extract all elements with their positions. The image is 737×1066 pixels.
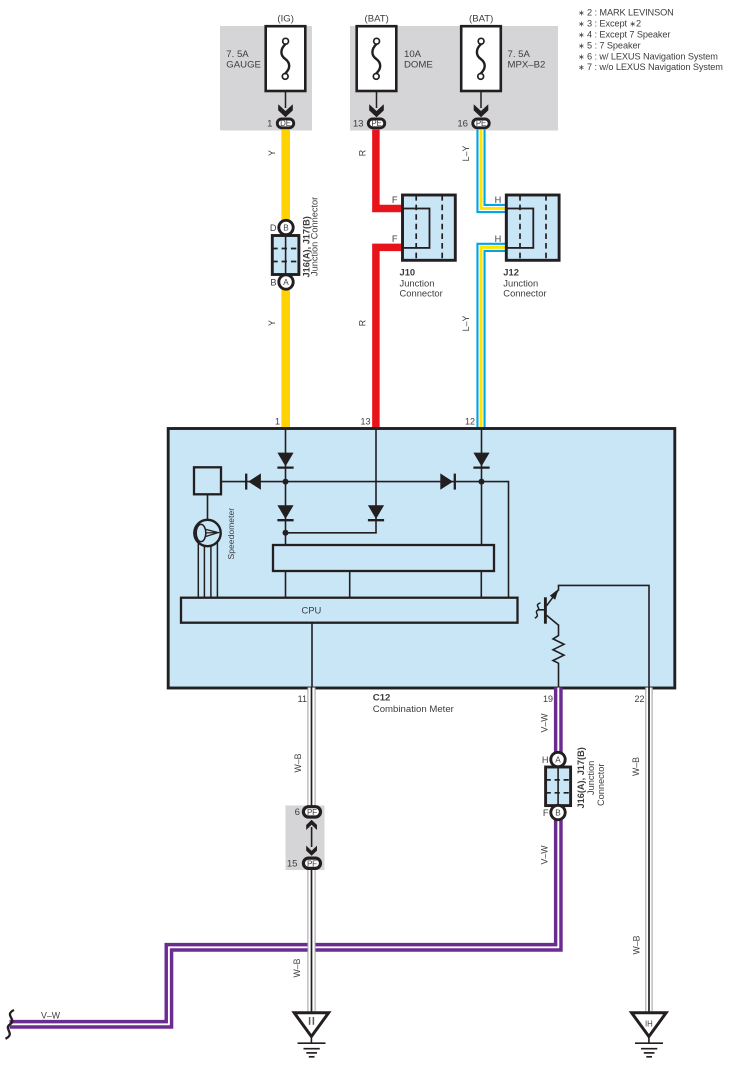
- svg-text:12: 12: [465, 417, 475, 427]
- diode D3 (second row under pin 13): [368, 505, 384, 520]
- svg-text:V–W: V–W: [41, 1011, 61, 1021]
- diode D2 (second row under pin 1): [277, 505, 293, 520]
- wire V-W (violet) pin 19 to junction connector: [554, 688, 563, 754]
- collector wire to pin 22: [559, 585, 650, 687]
- input block square: [194, 467, 221, 494]
- wire V-W (violet) junction connector to left edge: [10, 819, 559, 1025]
- connector pair arrows: [306, 820, 317, 856]
- svg-text:H: H: [495, 234, 502, 244]
- pin 11 label: [298, 694, 307, 704]
- pin 13 label: [360, 417, 370, 427]
- junction connector J16(A),J17(B) upper on yellow wire: [270, 197, 320, 289]
- speedometer to CPU wires: [198, 542, 217, 598]
- svg-text:PE: PE: [371, 119, 381, 128]
- pin 19 label: [543, 694, 553, 704]
- svg-text:H: H: [542, 755, 549, 765]
- svg-text:15: 15: [287, 859, 298, 870]
- CPU to pin 11 wire: [311, 623, 313, 688]
- node column from pin 13: [285, 429, 377, 533]
- wire W-B pin 11 lower segment to ground: [308, 867, 315, 1013]
- internal bus wire: [221, 481, 509, 598]
- svg-text:A: A: [283, 278, 289, 287]
- wire R (red) J10 to combination meter pin 13: [376, 247, 403, 428]
- svg-text:V–W: V–W: [540, 845, 550, 865]
- svg-text:R: R: [358, 150, 368, 156]
- wire label W-B (pin 22 lower): [632, 935, 642, 954]
- junction node dot C: [283, 530, 289, 536]
- svg-text:∗ 2 : MARK LEVINSON: ∗ 2 : MARK LEVINSON: [578, 8, 674, 18]
- svg-text:MPX–B2: MPX–B2: [508, 60, 546, 71]
- fuse F1 output arrow to connector DE pin 1: [267, 91, 294, 130]
- ground IH: [632, 1013, 667, 1057]
- junction node dot A: [283, 479, 289, 485]
- svg-text:∗ 5 : 7 Speaker: ∗ 5 : 7 Speaker: [578, 40, 640, 50]
- node column from pin 12: [481, 429, 483, 546]
- wire label L-Y lower: [461, 316, 471, 332]
- junction connector J10: [392, 195, 455, 299]
- connector 6 PF: [295, 807, 321, 819]
- wire label V-W lower: [540, 845, 550, 865]
- svg-text:22: 22: [634, 694, 644, 704]
- connector 15 PF: [287, 858, 321, 870]
- continuation squiggle on V-W wire: [6, 1010, 15, 1039]
- wire label Y upper: [267, 150, 277, 156]
- wire label W-B (pin 11 lower): [292, 958, 302, 977]
- svg-text:W–B: W–B: [632, 935, 642, 954]
- svg-text:13: 13: [353, 119, 364, 130]
- connector pair gray block (6 PF / 15 PF): [286, 805, 325, 870]
- fuse F1 7.5A GAUGE: [226, 13, 305, 91]
- svg-text:C12: C12: [373, 693, 391, 704]
- wire label L-Y upper: [461, 146, 471, 162]
- wire R (red) fuse 13 to J10: [376, 130, 403, 209]
- svg-text:Connector: Connector: [400, 288, 443, 299]
- svg-text:H: H: [495, 195, 502, 205]
- fuse F2 output arrow to connector PE pin 13: [353, 91, 385, 130]
- diode D6 (bus, pointing right): [440, 473, 455, 489]
- wire label V-W horizontal: [41, 1011, 61, 1021]
- junction connector J12: [495, 195, 559, 299]
- fuse F2 10A DOME: [357, 13, 433, 91]
- svg-text:(BAT): (BAT): [469, 13, 493, 24]
- svg-text:PE: PE: [476, 119, 486, 128]
- svg-text:(IG): (IG): [277, 13, 294, 24]
- svg-text:PF: PF: [307, 808, 317, 817]
- C12 label: [373, 693, 455, 715]
- svg-text:10A: 10A: [404, 49, 422, 60]
- svg-text:13: 13: [360, 417, 370, 427]
- combination meter C12 box: [168, 429, 675, 689]
- svg-text:Junction Connector: Junction Connector: [310, 197, 320, 276]
- svg-text:Speedometer: Speedometer: [226, 508, 236, 560]
- wire label R lower: [358, 320, 368, 326]
- wire L-Y (blue/yellow) J12 to combination meter pin 12: [481, 247, 506, 428]
- svg-text:Y: Y: [267, 150, 277, 156]
- wire Y (yellow) fuse 1 to combination meter pin 1: [281, 130, 290, 430]
- wire label R upper: [358, 150, 368, 156]
- power feed gray block (BAT fuses): [350, 26, 558, 131]
- svg-text:(BAT): (BAT): [365, 13, 389, 24]
- wire label W-B (pin 11 upper): [293, 753, 303, 772]
- svg-text:19: 19: [543, 694, 553, 704]
- wire label V-W upper: [540, 713, 550, 733]
- diode D1 (under pin 1): [277, 453, 293, 468]
- wire W-B pin 22 to ground: [646, 688, 652, 1014]
- svg-text:A: A: [555, 756, 561, 765]
- node column from pin 1: [285, 429, 287, 546]
- svg-text:F: F: [543, 808, 549, 818]
- register to CPU wires: [286, 571, 482, 598]
- svg-text:DE: DE: [280, 119, 291, 128]
- power feed gray block (IG fuse): [220, 26, 312, 131]
- legend notes: [578, 8, 723, 73]
- svg-text:∗ 3 : Except ∗2: ∗ 3 : Except ∗2: [578, 19, 641, 29]
- svg-text:W–B: W–B: [293, 753, 303, 772]
- pin 22 label: [634, 694, 644, 704]
- ground II: [294, 1013, 328, 1057]
- svg-text:GAUGE: GAUGE: [226, 60, 261, 71]
- diode D5 (bus, pointing left to square): [246, 473, 261, 489]
- svg-text:J10: J10: [400, 267, 416, 278]
- svg-text:∗ 4 : Except 7 Speaker: ∗ 4 : Except 7 Speaker: [578, 30, 670, 40]
- svg-text:L–Y: L–Y: [461, 146, 471, 162]
- svg-text:Combination Meter: Combination Meter: [373, 704, 455, 715]
- pin 12 label: [465, 417, 475, 427]
- svg-text:F: F: [392, 195, 398, 205]
- fuse F3 output arrow to connector PE pin 16: [457, 91, 489, 130]
- svg-text:B: B: [555, 809, 561, 818]
- resistor R1: [553, 625, 564, 688]
- svg-text:Connector: Connector: [596, 764, 606, 806]
- svg-text:11: 11: [298, 694, 307, 704]
- svg-text:∗ 6 : w/ LEXUS Navigation Syst: ∗ 6 : w/ LEXUS Navigation System: [578, 51, 718, 61]
- svg-text:J16(A), J17(B): J16(A), J17(B): [576, 747, 586, 808]
- svg-text:L–Y: L–Y: [461, 316, 471, 332]
- svg-text:Connector: Connector: [503, 288, 546, 299]
- svg-text:6: 6: [295, 807, 300, 818]
- CPU block: [181, 598, 518, 623]
- junction connector J16(A),J17(B) lower on violet wire: [542, 747, 606, 819]
- transistor Q1: [535, 589, 559, 626]
- diode D4 (under pin 12): [473, 453, 489, 468]
- svg-text:16: 16: [457, 119, 468, 130]
- speedometer gauge: [194, 494, 236, 559]
- svg-text:DOME: DOME: [404, 60, 433, 71]
- svg-text:7. 5A: 7. 5A: [508, 49, 531, 60]
- svg-text:W–B: W–B: [292, 958, 302, 977]
- svg-text:W–B: W–B: [631, 757, 641, 776]
- internal register rectangle: [273, 545, 494, 571]
- svg-text:7. 5A: 7. 5A: [226, 49, 249, 60]
- svg-text:IH: IH: [645, 1019, 653, 1028]
- wire label W-B (pin 22 upper): [631, 757, 641, 776]
- fuse F3 7.5A MPX-B2: [461, 13, 545, 91]
- wire L-Y (blue/yellow) fuse 16 to J12: [481, 130, 506, 209]
- svg-text:PF: PF: [307, 859, 317, 868]
- svg-text:∗ 7 : w/o LEXUS Navigation Sys: ∗ 7 : w/o LEXUS Navigation System: [578, 62, 723, 72]
- pin 1 label: [275, 417, 280, 427]
- wire label Y lower: [267, 320, 277, 326]
- svg-text:R: R: [358, 320, 368, 326]
- svg-text:1: 1: [275, 417, 280, 427]
- svg-text:Y: Y: [267, 320, 277, 326]
- svg-text:F: F: [392, 234, 398, 244]
- wire W-B pin 11 upper segment: [308, 688, 315, 808]
- svg-text:B: B: [283, 224, 289, 233]
- svg-text:1: 1: [267, 119, 272, 130]
- svg-text:J12: J12: [503, 267, 519, 278]
- svg-text:CPU: CPU: [302, 605, 322, 616]
- svg-text:V–W: V–W: [540, 713, 550, 733]
- svg-text:D: D: [270, 223, 277, 233]
- svg-text:B: B: [270, 277, 276, 287]
- junction node dot B: [479, 479, 485, 485]
- svg-text:Junction: Junction: [586, 761, 596, 795]
